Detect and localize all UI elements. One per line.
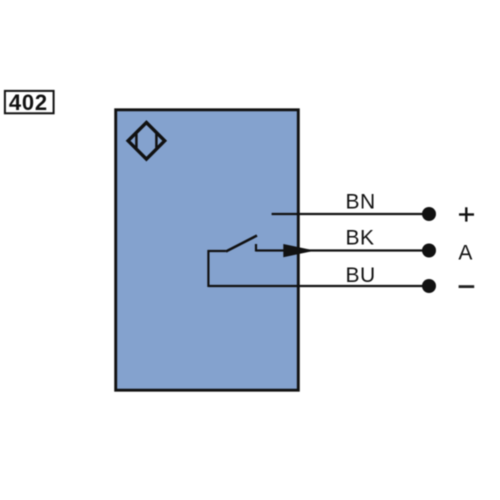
svg-text:402: 402 (9, 90, 48, 115)
svg-text:BK: BK (346, 227, 375, 250)
svg-text:BN: BN (346, 191, 376, 214)
svg-text:BU: BU (346, 264, 376, 287)
svg-text:A: A (458, 241, 472, 264)
